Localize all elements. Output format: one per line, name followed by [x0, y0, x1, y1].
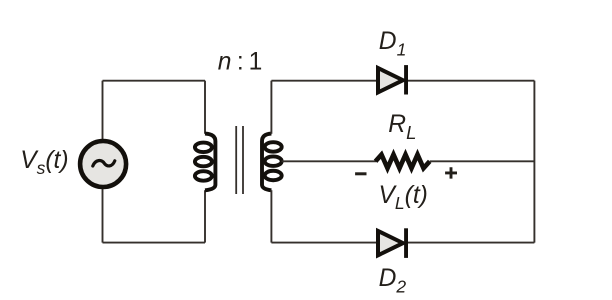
wire left vertical upper [102, 81, 104, 139]
wire D2 to right bus [408, 242, 534, 244]
wire primary top [204, 81, 206, 134]
svg-text:Vs(t): Vs(t) [20, 147, 68, 178]
diode D2 bar [404, 228, 408, 258]
transformer core [236, 126, 243, 194]
diode D1 triangle [378, 68, 403, 92]
right bus wire [533, 81, 535, 243]
svg-text:D1: D1 [379, 28, 407, 60]
wire top to D1 [271, 80, 376, 82]
source V_s(t) [80, 141, 126, 187]
wire left vertical lower [102, 189, 104, 243]
label minus [355, 172, 366, 175]
label plus [445, 167, 457, 178]
wire secondary top [270, 81, 272, 134]
wire D1 to right bus [408, 80, 534, 82]
diode D1 bar [404, 65, 408, 94]
wire resistor to right bus [430, 160, 535, 162]
svg-text:VL(t): VL(t) [379, 182, 428, 213]
transformer primary coil [195, 134, 216, 191]
svg-text:D2: D2 [379, 265, 407, 297]
wire bottom-left loop [103, 242, 206, 244]
resistor R_L zigzag [376, 155, 430, 169]
diode D2 triangle [378, 231, 403, 255]
svg-text:RL: RL [388, 111, 416, 143]
source sine mark [93, 161, 115, 166]
wire secondary bottom [270, 190, 272, 242]
wire bottom to D2 [271, 242, 376, 244]
wire top-left loop [103, 80, 206, 82]
wire primary bottom [204, 190, 206, 242]
svg-text:n:1: n:1 [218, 49, 262, 76]
wire center tap to resistor [282, 160, 377, 162]
transformer secondary coil [262, 134, 282, 191]
